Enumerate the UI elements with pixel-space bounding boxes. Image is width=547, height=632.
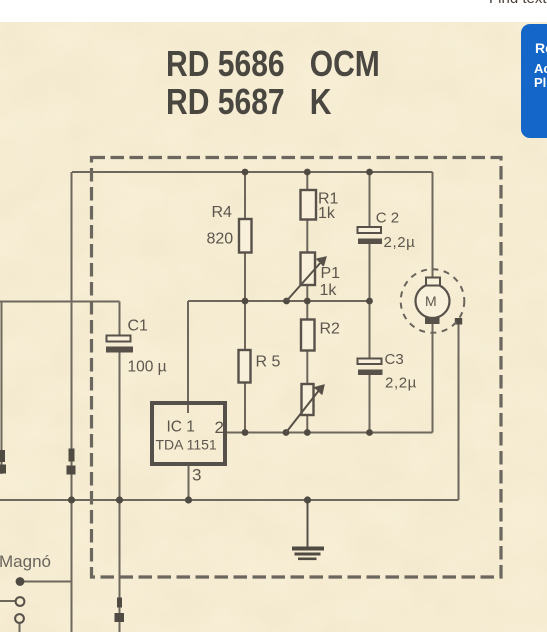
wire R1 top lead [306,172,308,190]
node bottom rail R5 junction [242,429,249,436]
node middle rail R2 junction [304,298,311,305]
wire R5 top lead [244,301,246,350]
wire C3 top lead [369,301,371,359]
svg-text:C1: C1 [128,318,149,335]
node C1 wire break mark [117,598,122,608]
wire IC pin 3 vertical [188,465,190,500]
wire R1 to P1 [306,220,308,253]
node ground rail pin3 junction [185,496,192,503]
node ground rail C1 junction [116,496,123,503]
wire middle rail [188,300,370,302]
potentiometer P1 wiper arrow [287,258,326,302]
potentiometer P1 body [301,253,316,286]
svg-text:1k: 1k [318,205,336,222]
wire P1 bottom lead [306,285,308,301]
svg-text:TDA 1151: TDA 1151 [156,437,217,453]
wire magno terminal link [20,581,72,583]
resistor R4 [239,219,252,253]
wire R4 top lead [244,172,246,219]
node bottom rail thermistor junction [304,429,311,436]
svg-text:P1: P1 [321,265,341,282]
node bottom rail C3 junction [366,429,373,436]
node top rail R1 junction [304,169,311,176]
wire motor bottom lead [432,324,434,433]
wire magno lower terminal stem [19,624,21,632]
node ground rail left junction [68,496,75,503]
svg-text:C3: C3 [385,351,404,368]
ground symbol [292,547,324,561]
motor M1 dashed outer circle [401,269,465,333]
magno open terminal lower [15,614,24,623]
wire R5 bottom lead [244,383,246,433]
capacitor C2 [358,227,383,244]
svg-text:Magnó: Magnó [0,552,51,571]
motor M1 bottom brush [425,317,440,324]
wire left rail below ground rail [71,500,73,632]
node motor right terminal [455,318,462,325]
wire magno open terminal lead [0,600,16,602]
node bottom rail thermistor wiper junction [283,429,290,436]
thermistor wiper arrow [286,386,324,433]
wire motor right terminal down [458,322,460,500]
wire input horizontal to C1 [0,301,120,303]
svg-text:1k: 1k [320,282,338,299]
svg-text:C 2: C 2 [376,210,399,227]
node off-page left connector dot [0,465,6,474]
svg-text:2: 2 [215,418,224,437]
wire R4 bottom lead [244,252,246,301]
wire thermistor bottom lead [306,415,308,433]
wire R2 top lead [306,301,308,320]
wire left rail vertical [71,172,73,500]
svg-text:3: 3 [192,466,201,485]
motor M1 body circle [416,284,450,318]
node off-page left break mark [0,450,5,462]
node middle rail P1 wiper junction [283,298,290,305]
wire motor top lead [432,172,434,278]
node top rail R4 junction [242,169,249,176]
svg-text:2,2µ: 2,2µ [385,375,417,392]
svg-text:820: 820 [207,231,234,248]
wire top supply rail [72,171,433,173]
motor M1 top brush [426,278,440,286]
resistor R2 [301,320,315,351]
wire C2 bottom lead [369,244,371,301]
svg-text:IC 1: IC 1 [167,419,195,436]
IC IC1 TDA1151 box [152,403,225,464]
magno open terminal upper [16,597,25,606]
node left rail connector dot [67,466,76,475]
node magno filled terminal [16,577,25,586]
capacitor C1 [106,336,133,353]
dashed enclosure border [92,158,502,578]
wire off-page left vertical [1,302,3,475]
wire C1 vertical top [119,302,121,337]
resistor R1 [301,190,317,220]
thermistor body below R2 [302,384,314,415]
node ground rail ground junction [304,496,311,503]
wire C1 vertical bottom [119,352,121,632]
resistor R5 [239,350,251,383]
svg-text:R 5: R 5 [256,354,281,371]
svg-text:R4: R4 [212,204,233,221]
svg-text:M: M [425,293,437,309]
wire bottom rail pin 2 [226,432,433,434]
wire ground stem [307,500,309,548]
svg-text:100 µ: 100 µ [128,359,167,376]
wire R2 to thermistor [306,351,308,385]
wire IC pin 1 vertical [187,301,189,413]
wire ground rail [0,499,459,501]
node top rail C2 junction [366,169,373,176]
node middle rail R4/R5 junction [242,298,249,305]
svg-text:2,2µ: 2,2µ [384,234,416,251]
capacitor C3 [358,359,383,376]
wire C2 top lead [369,172,371,227]
node middle rail C2/C3 junction [366,298,373,305]
svg-text:R2: R2 [320,321,341,338]
wire C3 bottom lead [369,375,371,433]
node C1 wire connector dot [115,613,125,622]
node left rail break mark [69,449,75,462]
